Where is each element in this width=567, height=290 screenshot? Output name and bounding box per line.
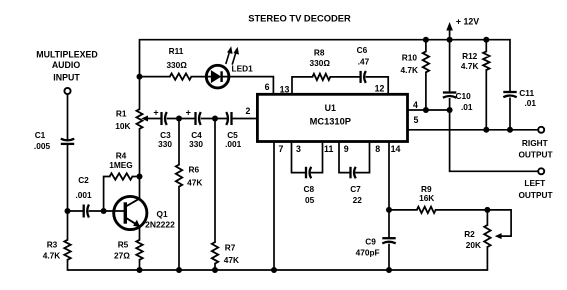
svg-text:6: 6: [265, 82, 270, 92]
svg-text:14: 14: [391, 144, 401, 154]
svg-text:05: 05: [305, 195, 315, 205]
svg-text:R8: R8: [314, 47, 325, 57]
svg-text:RIGHT: RIGHT: [522, 138, 548, 148]
svg-text:2: 2: [246, 106, 251, 116]
svg-text:4.7K: 4.7K: [400, 65, 418, 75]
svg-text:12: 12: [375, 83, 385, 93]
svg-text:OUTPUT: OUTPUT: [518, 190, 552, 200]
svg-text:330: 330: [189, 139, 203, 149]
svg-text:C11: C11: [519, 88, 534, 98]
svg-text:R3: R3: [47, 240, 58, 250]
svg-text:C9: C9: [365, 236, 376, 246]
svg-text:.001: .001: [225, 139, 242, 149]
svg-text:10K: 10K: [115, 121, 130, 131]
svg-text:STEREO TV DECODER: STEREO TV DECODER: [248, 12, 351, 23]
svg-text:R2: R2: [464, 229, 475, 239]
svg-text:330Ω: 330Ω: [310, 58, 331, 68]
svg-text:+: +: [153, 107, 158, 117]
svg-text:4.7K: 4.7K: [43, 251, 61, 261]
svg-text:1MEG: 1MEG: [109, 160, 133, 170]
svg-text:R12: R12: [462, 51, 478, 61]
svg-text:8: 8: [375, 144, 380, 154]
svg-text:22: 22: [353, 195, 363, 205]
svg-text:R7: R7: [225, 243, 236, 253]
svg-text:47K: 47K: [224, 255, 239, 265]
svg-text:MULTIPLEXED: MULTIPLEXED: [36, 50, 97, 60]
svg-text:.47: .47: [358, 57, 370, 67]
svg-text:C2: C2: [78, 175, 89, 185]
svg-text:7: 7: [279, 144, 284, 154]
svg-text:LED1: LED1: [232, 64, 254, 74]
svg-text:47K: 47K: [187, 178, 202, 188]
svg-text:470pF: 470pF: [356, 248, 380, 258]
svg-text:R4: R4: [116, 151, 127, 161]
svg-text:U1: U1: [325, 103, 336, 113]
svg-text:C7: C7: [350, 184, 361, 194]
svg-text:OUTPUT: OUTPUT: [518, 150, 552, 160]
svg-text:R11: R11: [169, 46, 184, 56]
svg-text:+ 12V: + 12V: [456, 16, 479, 26]
svg-text:.01: .01: [525, 98, 537, 108]
svg-text:2N2222: 2N2222: [145, 220, 175, 230]
svg-text:+: +: [186, 107, 191, 117]
svg-text:INPUT: INPUT: [53, 73, 80, 83]
svg-text:330: 330: [158, 139, 172, 149]
svg-text:LEFT: LEFT: [524, 178, 545, 188]
svg-text:R1: R1: [116, 109, 127, 119]
svg-text:C10: C10: [456, 91, 472, 101]
svg-text:MC1310P: MC1310P: [310, 116, 351, 126]
svg-text:16K: 16K: [419, 193, 434, 203]
svg-text:13: 13: [280, 84, 290, 94]
svg-text:4: 4: [413, 100, 418, 110]
svg-text:Q1: Q1: [157, 209, 168, 219]
svg-text:27Ω: 27Ω: [114, 251, 130, 261]
svg-text:5: 5: [414, 115, 419, 125]
svg-text:.005: .005: [34, 141, 51, 151]
svg-text:R6: R6: [189, 165, 200, 175]
svg-text:4.7K: 4.7K: [461, 61, 479, 71]
svg-text:R5: R5: [118, 240, 129, 250]
svg-text:.01: .01: [461, 102, 473, 112]
svg-text:R10: R10: [402, 53, 418, 63]
svg-text:3: 3: [296, 144, 301, 154]
svg-text:11: 11: [324, 144, 333, 154]
svg-text:9: 9: [344, 144, 349, 154]
svg-text:C8: C8: [303, 184, 314, 194]
svg-text:330Ω: 330Ω: [166, 60, 187, 70]
svg-text:.001: .001: [75, 190, 92, 200]
svg-text:20K: 20K: [466, 240, 481, 250]
svg-text:AUDIO: AUDIO: [52, 60, 81, 70]
svg-text:C6: C6: [357, 45, 368, 55]
svg-text:C1: C1: [35, 130, 46, 140]
